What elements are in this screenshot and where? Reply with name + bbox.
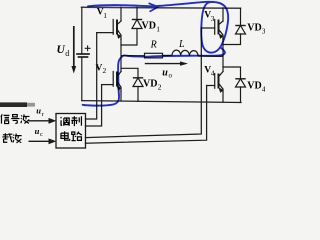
wire gate V2 lead bbox=[102, 84, 114, 86]
svg-text:c: c bbox=[40, 131, 43, 138]
wire source column lower bbox=[81, 57, 83, 101]
svg-text:VD: VD bbox=[143, 79, 157, 90]
capacitor plus sign bbox=[85, 46, 90, 51]
svg-text:u: u bbox=[36, 106, 41, 116]
diode VD2 bbox=[121, 68, 143, 101]
wire bottom rail N bbox=[82, 101, 241, 103]
scan artifact dark band bottom left bbox=[0, 102, 27, 107]
label 制 bbox=[71, 116, 81, 126]
svg-text:o: o bbox=[169, 72, 173, 80]
blue annotation freehand current path bbox=[83, 2, 229, 106]
wire gate V4 lead bbox=[207, 85, 215, 87]
blue top line along P rail bbox=[88, 2, 214, 7]
svg-text:u: u bbox=[35, 126, 40, 136]
svg-text:2: 2 bbox=[158, 83, 162, 92]
blue arrowhead on annotation bbox=[149, 3, 158, 11]
wire gate riser V3 bbox=[86, 28, 202, 138]
diode VD4 bbox=[223, 67, 246, 102]
wire L to node B (right leg) bbox=[198, 55, 223, 57]
label 调 bbox=[61, 117, 70, 126]
label 载波 bbox=[2, 133, 12, 142]
transistor V1 (IGBT) bbox=[113, 20, 121, 40]
wire R to L bbox=[163, 54, 173, 56]
capacitor C plate top bbox=[77, 53, 89, 55]
svg-text:R: R bbox=[150, 40, 157, 51]
blue oval circling V3 bbox=[201, 2, 228, 53]
wire top rail P bbox=[82, 7, 241, 8]
wire right leg V4 emitter to bottom rail bbox=[222, 92, 224, 103]
label 路 bbox=[72, 132, 82, 141]
voltage arrow Ud bbox=[71, 26, 76, 74]
svg-text:VD: VD bbox=[142, 20, 156, 31]
resistor R bbox=[145, 53, 163, 58]
svg-text:4: 4 bbox=[211, 68, 215, 77]
wire gate riser V1 bbox=[86, 33, 97, 119]
svg-text:3: 3 bbox=[211, 14, 215, 23]
wire right leg collector V3 bbox=[222, 8, 224, 21]
svg-text:4: 4 bbox=[262, 84, 265, 93]
transistor V3 (IGBT) bbox=[215, 20, 224, 40]
input arrow uc (carrier wave) bbox=[29, 138, 57, 144]
diode VD3 bbox=[223, 8, 246, 44]
wire gate V1 lead bbox=[97, 32, 114, 34]
wire left leg V2 emitter to bottom rail bbox=[120, 92, 122, 102]
wire left leg mid (V1 emitter to V2 collector) bbox=[120, 40, 122, 72]
svg-text:1: 1 bbox=[156, 24, 160, 33]
wire right leg mid (V3 emitter to V4 collector) bbox=[222, 40, 224, 72]
svg-text:VD: VD bbox=[247, 80, 261, 91]
svg-text:1: 1 bbox=[103, 11, 107, 20]
svg-text:2: 2 bbox=[103, 66, 107, 75]
svg-text:3: 3 bbox=[262, 26, 265, 35]
diode VD1 bbox=[121, 7, 142, 45]
capacitor C plate bottom bbox=[79, 56, 88, 58]
svg-text:u: u bbox=[162, 67, 168, 78]
transistor V2 (IGBT) bbox=[113, 72, 121, 92]
blue exit stroke from oval to load line bbox=[83, 48, 225, 106]
voltage arrow uo bbox=[145, 61, 188, 65]
inductor L bbox=[172, 50, 198, 56]
svg-text:U: U bbox=[57, 44, 66, 56]
input arrow ur (signal wave) bbox=[29, 118, 57, 124]
wire left leg collector V1 bbox=[120, 7, 122, 21]
wire gate riser V2 bbox=[86, 85, 102, 126]
svg-text:d: d bbox=[65, 49, 69, 58]
wire gate riser V4 bbox=[86, 86, 207, 144]
wire load tap left (node A to R) bbox=[121, 55, 145, 57]
label 信号波 bbox=[1, 114, 10, 123]
transistor V4 (IGBT) bbox=[215, 72, 224, 93]
modulation circuit block 调制电路 bbox=[56, 114, 86, 149]
label 电 bbox=[61, 131, 70, 140]
svg-text:L: L bbox=[178, 39, 185, 50]
wire gate V3 lead bbox=[201, 27, 214, 29]
wire source column upper bbox=[81, 7, 83, 54]
svg-text:VD: VD bbox=[247, 22, 261, 33]
